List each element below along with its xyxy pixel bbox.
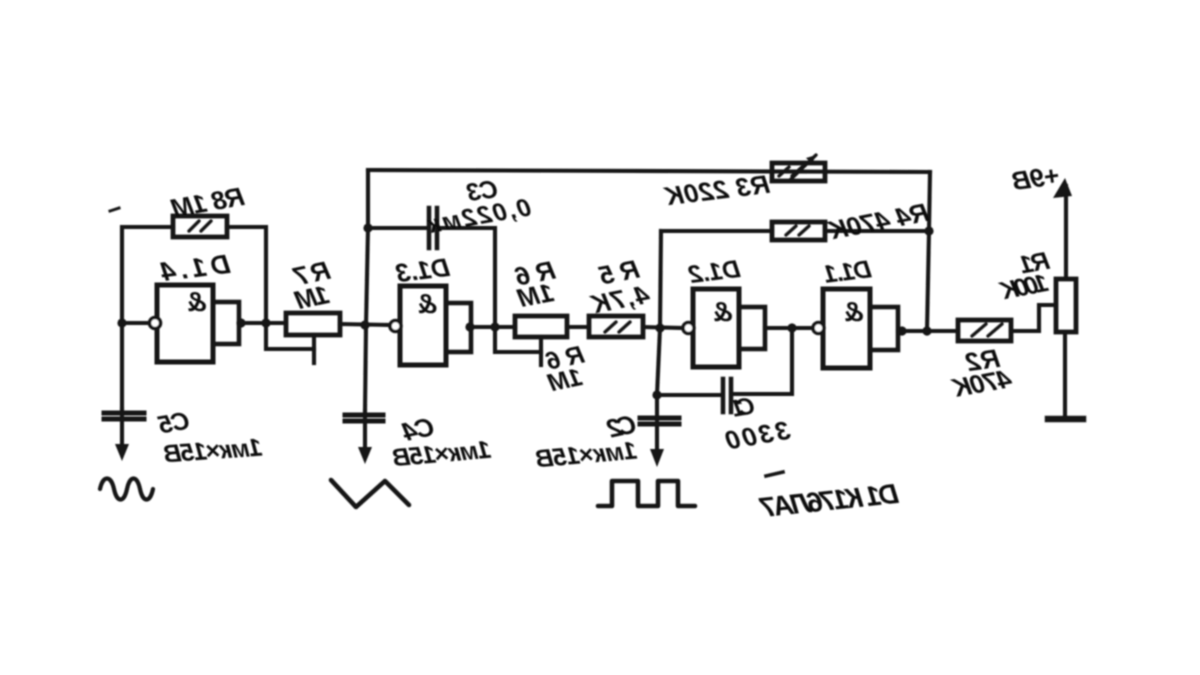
- svg-text:100K: 100K: [996, 269, 1050, 306]
- svg-text:&: &: [186, 286, 206, 317]
- svg-text:1M: 1M: [545, 363, 585, 398]
- svg-text:C1: C1: [730, 392, 757, 423]
- svg-text:C5: C5: [155, 407, 191, 440]
- svg-text:D1.4: D1.4: [159, 249, 232, 287]
- svg-text:1M: 1M: [514, 277, 556, 314]
- svg-text:D1 К176ЛА7: D1 К176ЛА7: [757, 478, 900, 524]
- svg-text:470K: 470K: [948, 363, 1014, 403]
- svg-text:R4 470K: R4 470K: [824, 197, 931, 246]
- svg-text:1мк×15В: 1мк×15В: [534, 437, 638, 474]
- svg-text:3300: 3300: [723, 415, 793, 456]
- svg-text:1мк×15В: 1мк×15В: [163, 434, 264, 469]
- svg-text:R8 1M: R8 1M: [168, 181, 246, 223]
- svg-text:&: &: [417, 288, 437, 319]
- svg-text:&: &: [843, 296, 863, 327]
- svg-text:D1.1: D1.1: [822, 255, 873, 289]
- svg-text:1M: 1M: [291, 279, 332, 316]
- svg-text:D1.3: D1.3: [394, 252, 452, 288]
- svg-text:+9В: +9В: [1010, 160, 1062, 196]
- svg-text:R3 220K: R3 220K: [661, 169, 771, 212]
- svg-text:D1.2: D1.2: [687, 255, 742, 289]
- svg-text:&: &: [712, 296, 732, 327]
